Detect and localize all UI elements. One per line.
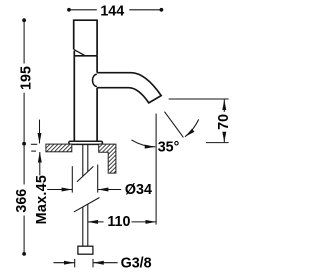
faucet body — [74, 51, 97, 141]
svg-text:G3/8: G3/8 — [121, 256, 152, 272]
base flange — [69, 141, 103, 144]
svg-text:195: 195 — [18, 66, 34, 90]
svg-text:Ø34: Ø34 — [125, 182, 152, 198]
35 degree arc left with arrow — [132, 140, 156, 147]
diameter 34 extension lines — [47, 165, 121, 193]
svg-text:144: 144 — [100, 4, 124, 20]
faucet handle — [74, 20, 97, 56]
shank tube — [83, 144, 88, 176]
nut — [78, 246, 93, 254]
countertop right block (hatched) — [99, 144, 116, 173]
countertop left block (hatched) — [46, 144, 72, 152]
vertical reference line from spout tip — [155, 114, 157, 225]
break line upper — [77, 166, 93, 181]
svg-text:35°: 35° — [158, 140, 180, 156]
70 dimension reference lines — [169, 99, 229, 143]
svg-text:70: 70 — [216, 114, 232, 130]
Max.45 dimension arrows and ticks — [31, 120, 40, 176]
110 dimension — [88, 221, 156, 223]
35 degree arc right with arrow — [185, 119, 199, 136]
35 degree flow direction line — [165, 112, 184, 138]
svg-text:366: 366 — [14, 189, 30, 213]
spout — [97, 73, 161, 103]
dimension 144 (top horizontal) — [67, 8, 163, 12]
G3/8 dimension — [54, 259, 118, 268]
svg-text:110: 110 — [107, 214, 130, 230]
svg-text:Max.45: Max.45 — [34, 175, 50, 225]
threaded rod — [83, 204, 88, 246]
spout-body junction arc — [93, 74, 97, 86]
dimension 195/366 vertical line with dots — [22, 18, 26, 256]
break line lower — [74, 198, 100, 212]
